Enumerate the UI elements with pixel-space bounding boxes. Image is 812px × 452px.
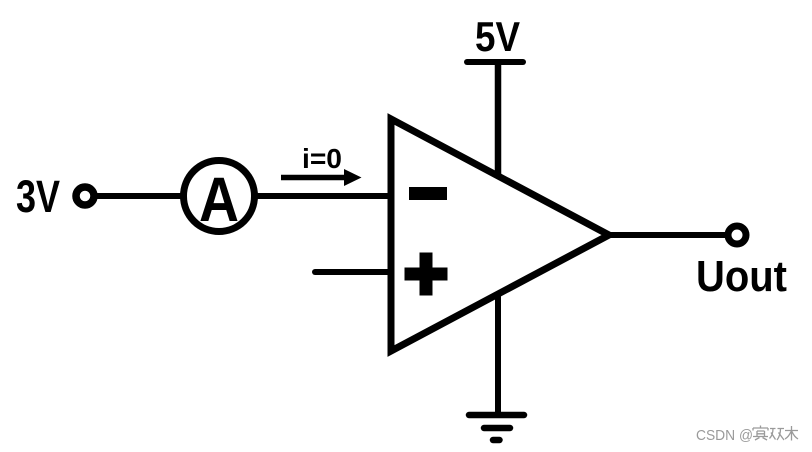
svg-text:Uout: Uout bbox=[696, 252, 787, 301]
glyph 木 bbox=[785, 426, 798, 441]
wire non-inverting input stub bbox=[315, 269, 391, 275]
current arrow i=0 bbox=[281, 143, 362, 186]
wire terminal to ammeter bbox=[97, 193, 184, 199]
node Uout output terminal bbox=[728, 226, 746, 244]
svg-text:i=0: i=0 bbox=[302, 143, 342, 174]
plus input symbol bbox=[405, 268, 448, 281]
minus input symbol bbox=[409, 187, 447, 200]
wire op-amp to ground bbox=[495, 294, 501, 415]
glyph 寅 bbox=[753, 426, 768, 441]
5V supply rail bar bbox=[467, 59, 523, 65]
watermark CSDN @寅双木 bbox=[696, 426, 798, 445]
glyph 双 bbox=[770, 429, 785, 441]
svg-text:A: A bbox=[199, 165, 239, 235]
svg-text:CSDN @: CSDN @ bbox=[696, 427, 753, 444]
svg-text:3V: 3V bbox=[16, 171, 60, 222]
wire 5V to op-amp bbox=[495, 62, 502, 176]
wire output bbox=[609, 232, 726, 238]
ground bbox=[469, 415, 524, 440]
wire ammeter to inverting input bbox=[254, 193, 391, 199]
node 3V input terminal bbox=[76, 187, 94, 205]
svg-text:5V: 5V bbox=[475, 13, 520, 60]
ammeter A bbox=[184, 161, 255, 236]
op-amp U1 bbox=[391, 119, 609, 351]
